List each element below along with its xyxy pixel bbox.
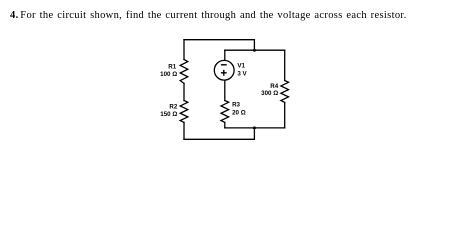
- svg-text:R1: R1: [168, 63, 176, 70]
- wire right branch lower: [284, 102, 286, 128]
- resistor R2: [180, 101, 188, 123]
- resistor R3: [221, 101, 229, 123]
- svg-text:100 Ω: 100 Ω: [160, 71, 177, 78]
- wire top middle horizontal: [225, 49, 285, 51]
- V1 plus sign: [221, 70, 227, 76]
- svg-text:150 Ω: 150 Ω: [160, 111, 177, 118]
- resistor R1: [180, 60, 188, 84]
- wire middle branch center: [224, 81, 226, 101]
- svg-text:20 Ω: 20 Ω: [232, 110, 246, 117]
- resistor R4: [281, 81, 289, 103]
- voltage source V1: [214, 60, 234, 80]
- problem title text: [10, 11, 407, 22]
- wire left branch upper: [183, 40, 185, 60]
- wire bottom left horizontal: [184, 138, 254, 140]
- svg-text:R2: R2: [169, 104, 177, 111]
- svg-text:3 V: 3 V: [237, 71, 247, 78]
- wire middle branch upper: [224, 50, 226, 60]
- wire left branch middle: [183, 83, 185, 100]
- wire bottom rise to junction: [253, 128, 255, 139]
- wire top drop to junction: [253, 40, 255, 51]
- svg-text:R3: R3: [232, 102, 240, 109]
- wire top left horizontal: [184, 39, 254, 41]
- svg-text:V1: V1: [237, 63, 245, 70]
- V1 minus sign: [221, 64, 227, 66]
- wire left branch lower: [183, 122, 185, 139]
- wire right branch upper: [284, 50, 286, 80]
- junction node bottom: [253, 126, 256, 129]
- wire middle branch lower: [224, 122, 226, 128]
- wire bottom middle horizontal: [225, 127, 285, 129]
- junction node top: [253, 49, 256, 52]
- svg-text:300 Ω: 300 Ω: [261, 90, 278, 97]
- svg-text:R4: R4: [270, 83, 278, 90]
